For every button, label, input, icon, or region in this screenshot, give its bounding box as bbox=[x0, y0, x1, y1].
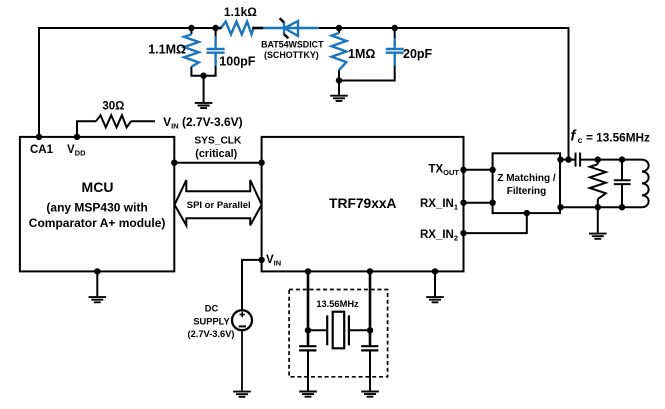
svg-text:13.56MHz: 13.56MHz bbox=[316, 299, 359, 309]
svg-text:= 13.56MHz: = 13.56MHz bbox=[586, 131, 650, 145]
svg-text:BAT54WSDICT: BAT54WSDICT bbox=[261, 39, 324, 49]
svg-text:Z Matching /: Z Matching / bbox=[497, 173, 556, 184]
svg-text:(2.7V-3.6V): (2.7V-3.6V) bbox=[187, 329, 234, 339]
svg-text:(critical): (critical) bbox=[195, 148, 237, 160]
svg-text:1MΩ: 1MΩ bbox=[348, 47, 375, 61]
svg-text:Comparator A+ module): Comparator A+ module) bbox=[29, 216, 166, 230]
svg-text:(SCHOTTKY): (SCHOTTKY) bbox=[264, 50, 319, 60]
svg-text:1.1MΩ: 1.1MΩ bbox=[148, 43, 186, 57]
svg-text:SUPPLY: SUPPLY bbox=[193, 316, 230, 326]
svg-text:Filtering: Filtering bbox=[507, 186, 546, 197]
svg-text:(any MSP430 with: (any MSP430 with bbox=[46, 200, 147, 214]
svg-text:30Ω: 30Ω bbox=[102, 101, 124, 113]
svg-text:CA1: CA1 bbox=[30, 144, 54, 156]
svg-text:RX_IN1: RX_IN1 bbox=[420, 198, 458, 212]
svg-text:100pF: 100pF bbox=[219, 55, 255, 69]
svg-text:RX_IN2: RX_IN2 bbox=[420, 229, 458, 243]
svg-text:1.1kΩ: 1.1kΩ bbox=[224, 5, 257, 19]
svg-text:MCU: MCU bbox=[82, 179, 114, 195]
svg-text:TRF79xxA: TRF79xxA bbox=[329, 196, 397, 211]
svg-text:20pF: 20pF bbox=[403, 47, 433, 61]
svg-text:c: c bbox=[578, 135, 583, 145]
svg-text:SYS_CLK: SYS_CLK bbox=[194, 136, 242, 147]
svg-text:SPI or Parallel: SPI or Parallel bbox=[187, 200, 251, 211]
svg-text:DC: DC bbox=[205, 304, 219, 314]
